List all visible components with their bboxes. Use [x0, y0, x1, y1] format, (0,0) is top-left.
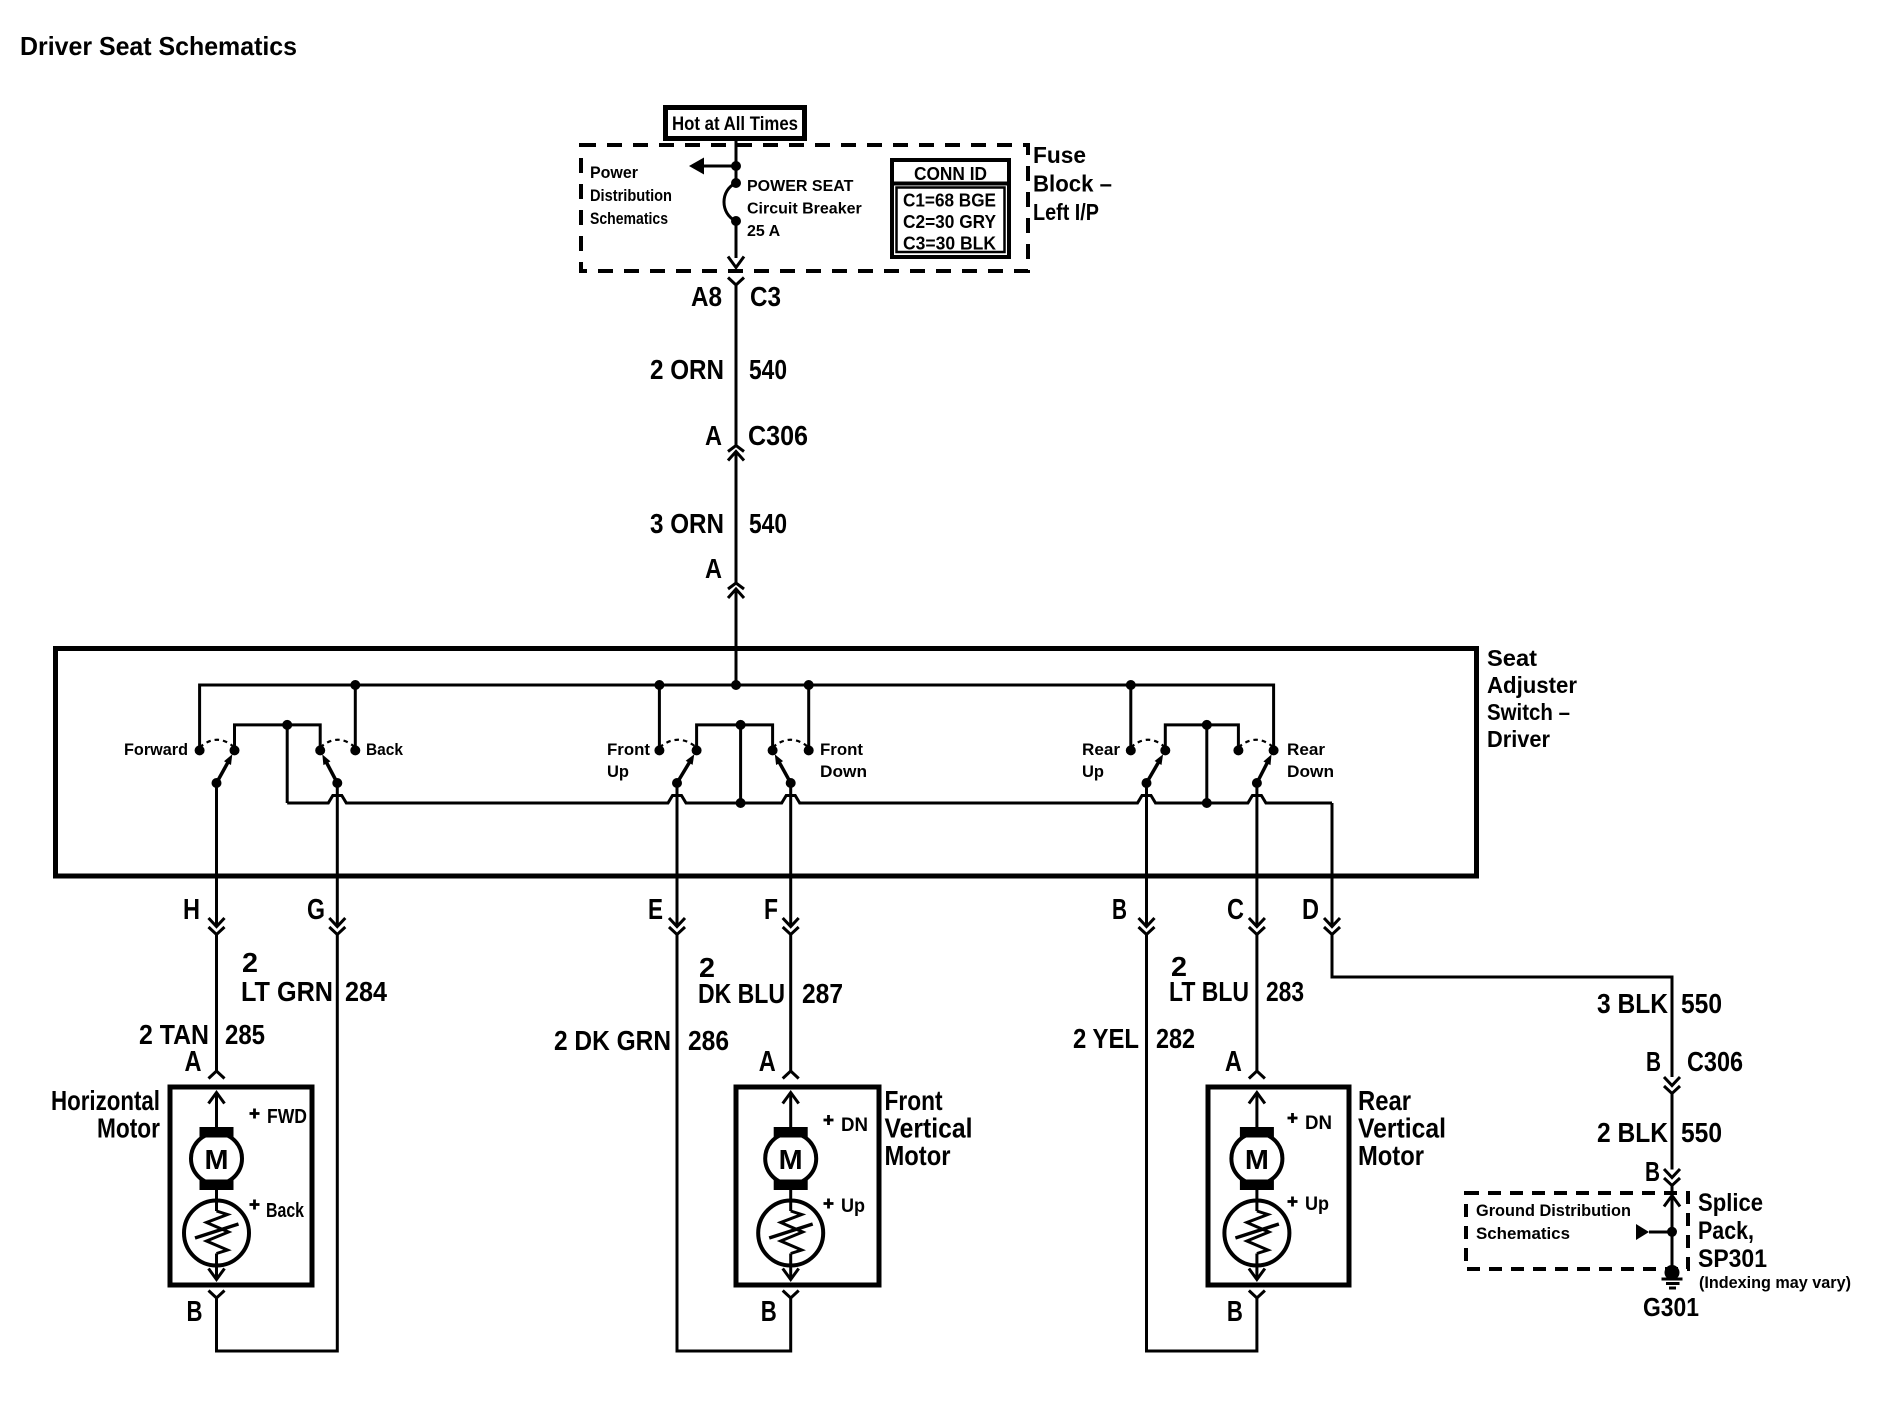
- junction ground bus rear: [1202, 798, 1212, 808]
- connector pin H: [209, 918, 225, 927]
- switch forward arm: [212, 778, 222, 788]
- switch forward contact: [195, 745, 205, 755]
- junction hot feed: [731, 161, 741, 171]
- wire rear vertical motor return loop: [1147, 935, 1257, 1352]
- svg-text:DK BLU: DK BLU: [698, 978, 785, 1009]
- connector C3 pin A8 (female Y): [728, 278, 744, 286]
- junction bridge rear: [1202, 720, 1212, 730]
- wire front vertical motor return loop: [677, 935, 791, 1352]
- junction bus front-up: [654, 680, 664, 690]
- connector horizontal motor pin A: [209, 1071, 225, 1079]
- svg-text:Front: Front: [607, 740, 650, 759]
- switch rear-up contact: [1126, 745, 1136, 755]
- svg-text:550: 550: [1681, 988, 1722, 1019]
- wire bus dropper front-up: [658, 685, 661, 750]
- svg-text:Forward: Forward: [124, 740, 188, 759]
- CONN ID table: [892, 160, 1009, 257]
- svg-text:Motor: Motor: [885, 1140, 951, 1171]
- svg-text:Driver Seat Schematics: Driver Seat Schematics: [20, 31, 297, 61]
- svg-text:550: 550: [1681, 1117, 1722, 1148]
- svg-text:Power: Power: [590, 163, 638, 182]
- switch back linkage (dashed arc): [320, 740, 355, 748]
- svg-text:Schematics: Schematics: [590, 209, 668, 228]
- svg-text:283: 283: [1266, 976, 1304, 1007]
- connector pin D: [1324, 918, 1340, 927]
- svg-text:DN: DN: [1305, 1113, 1332, 1134]
- svg-text:C: C: [1227, 894, 1244, 926]
- svg-text:25 A: 25 A: [747, 223, 781, 240]
- svg-text:Rear: Rear: [1082, 740, 1120, 759]
- front vertical motor box: [736, 1087, 879, 1285]
- wire horizontal motor return loop: [217, 935, 338, 1352]
- wire pin D to ground run: [1332, 935, 1672, 1078]
- svg-text:2 YEL: 2 YEL: [1073, 1023, 1139, 1054]
- bridge wire front-vertical: [697, 725, 773, 751]
- svg-text:Down: Down: [820, 762, 867, 781]
- svg-text:284: 284: [345, 976, 387, 1007]
- wire front vertical motor internal bottom: [789, 1254, 792, 1280]
- label + Back: [250, 1203, 260, 1206]
- switch forward throw contact: [230, 745, 240, 755]
- svg-text:CONN ID: CONN ID: [914, 164, 987, 184]
- svg-text:C306: C306: [748, 420, 808, 451]
- svg-text:Switch –: Switch –: [1487, 699, 1570, 725]
- bridge wire horizontal-motor: [235, 725, 321, 751]
- svg-text:A: A: [185, 1046, 202, 1078]
- svg-text:Fuse: Fuse: [1033, 142, 1086, 168]
- switch forward linkage (dashed arc): [200, 740, 235, 748]
- svg-text:G301: G301: [1643, 1292, 1699, 1322]
- svg-text:C3: C3: [750, 281, 781, 312]
- wire front vertical motor internal top: [783, 1093, 799, 1104]
- svg-text:(Indexing may vary): (Indexing may vary): [1699, 1273, 1851, 1292]
- wire 2 ORN 540: [735, 285, 738, 446]
- splice SP301: [1665, 1265, 1680, 1280]
- svg-text:A: A: [1225, 1046, 1242, 1078]
- arrow to ground distribution: [1636, 1224, 1649, 1240]
- switch rear-down linkage (dashed arc): [1238, 740, 1273, 748]
- svg-text:Motor: Motor: [1358, 1140, 1424, 1171]
- switch front-down arm: [786, 778, 796, 788]
- thermal limiter horizontal motor (resistor): [184, 1201, 249, 1266]
- svg-text:2 BLK: 2 BLK: [1597, 1117, 1668, 1148]
- svg-text:F: F: [764, 894, 778, 926]
- wire switch feed: [735, 589, 738, 685]
- svg-text:Back: Back: [266, 1200, 305, 1222]
- svg-text:Front: Front: [885, 1085, 943, 1116]
- svg-text:DN: DN: [841, 1115, 868, 1136]
- label box Hot at All Times: [666, 108, 805, 139]
- in-line connector pin A: [728, 583, 744, 589]
- svg-text:3 ORN: 3 ORN: [650, 508, 724, 539]
- svg-text:Distribution: Distribution: [590, 186, 672, 205]
- svg-text:3 BLK: 3 BLK: [1597, 988, 1668, 1019]
- fuse block dashed outline: [581, 145, 1028, 271]
- svg-text:M: M: [779, 1144, 803, 1175]
- wire bridge-to-ground-bus horizontal: [286, 725, 289, 803]
- wire horizontal motor internal mid: [215, 1190, 218, 1211]
- label + DN: [824, 1119, 834, 1122]
- wire pin D: [1331, 803, 1334, 927]
- svg-text:Vertical: Vertical: [1358, 1113, 1446, 1144]
- rear vertical motor box: [1208, 1087, 1349, 1285]
- svg-text:Rear: Rear: [1287, 740, 1325, 759]
- connector C306 pin B (ground): [1664, 1077, 1680, 1086]
- svg-text:B: B: [1227, 1296, 1243, 1328]
- thermal limiter rear vertical motor (resistor): [1224, 1201, 1289, 1266]
- seat adjuster switch box: [56, 649, 1477, 877]
- switch front-down contact: [804, 745, 814, 755]
- wire pin H: [215, 783, 218, 927]
- connector pin B: [1139, 918, 1155, 927]
- svg-text:Up: Up: [841, 1196, 865, 1217]
- svg-text:Splice: Splice: [1698, 1189, 1763, 1217]
- svg-text:E: E: [648, 894, 663, 926]
- wire into splice pack: [1671, 1186, 1674, 1194]
- connector splice pack pin B: [1664, 1169, 1680, 1178]
- motor horizontal motor symbol: [200, 1127, 234, 1138]
- svg-text:LT GRN: LT GRN: [241, 976, 333, 1007]
- svg-text:Circuit Breaker: Circuit Breaker: [747, 201, 862, 218]
- junction bus rear-up: [1126, 680, 1136, 690]
- wire rear vertical motor internal top: [1249, 1093, 1265, 1104]
- ground symbol G301: [1662, 1278, 1683, 1281]
- svg-text:Ground Distribution: Ground Distribution: [1476, 1201, 1631, 1220]
- wire pin F: [789, 783, 792, 927]
- wire rear vertical motor internal mid: [1255, 1190, 1258, 1211]
- svg-text:285: 285: [225, 1019, 265, 1050]
- wire bus dropper back: [354, 685, 357, 750]
- svg-text:SP301: SP301: [1698, 1245, 1767, 1273]
- switch rear-down arm: [1252, 778, 1262, 788]
- switch front-up linkage (dashed arc): [659, 740, 696, 748]
- wire pin G: [336, 783, 339, 927]
- connector pin C: [1249, 918, 1265, 927]
- svg-text:B: B: [1645, 1156, 1660, 1187]
- wire pin E: [676, 783, 679, 927]
- svg-text:287: 287: [802, 978, 843, 1009]
- label + DN: [1288, 1117, 1298, 1120]
- junction bus front-down: [804, 680, 814, 690]
- label + Up: [1288, 1200, 1298, 1203]
- svg-text:Adjuster: Adjuster: [1487, 672, 1577, 698]
- wire bridge-to-ground-bus front: [739, 725, 742, 803]
- svg-text:C2=30 GRY: C2=30 GRY: [903, 212, 996, 232]
- switch front-up contact: [654, 745, 664, 755]
- connector pin G: [329, 918, 345, 927]
- wire bus dropper front-down: [807, 685, 810, 750]
- junction bus back: [350, 680, 360, 690]
- connector rear vertical motor pin B: [1249, 1291, 1265, 1299]
- svg-text:540: 540: [749, 354, 787, 385]
- svg-text:C3=30 BLK: C3=30 BLK: [903, 234, 996, 254]
- svg-text:B: B: [1112, 894, 1127, 926]
- connector rear vertical motor pin A: [1249, 1071, 1265, 1079]
- svg-text:Down: Down: [1287, 762, 1334, 781]
- junction splice arrow: [1667, 1227, 1677, 1237]
- wire horizontal motor internal bottom: [215, 1254, 218, 1280]
- wire pin B: [1145, 783, 1148, 927]
- ground bus (with wire hops): [287, 796, 1332, 804]
- switch front-down linkage (dashed arc): [773, 740, 809, 748]
- wire rear vertical motor feed: [1255, 935, 1258, 1072]
- switch rear-up arm: [1142, 778, 1152, 788]
- switch back contact: [350, 745, 360, 755]
- svg-text:Up: Up: [1305, 1194, 1329, 1215]
- B+ bus: [200, 685, 1274, 750]
- svg-text:B: B: [187, 1296, 203, 1328]
- svg-text:Up: Up: [1082, 762, 1104, 781]
- svg-text:Rear: Rear: [1358, 1085, 1411, 1116]
- wire horizontal motor feed: [215, 935, 218, 1072]
- svg-text:Front: Front: [820, 740, 863, 759]
- svg-text:2: 2: [242, 947, 258, 978]
- wire bus dropper rear-up: [1129, 685, 1132, 750]
- switch back arm: [332, 778, 342, 788]
- svg-text:540: 540: [749, 508, 787, 539]
- svg-text:B: B: [761, 1296, 777, 1328]
- switch rear-up linkage (dashed arc): [1131, 740, 1166, 748]
- wire junction to breaker: [735, 166, 738, 183]
- svg-text:Back: Back: [366, 740, 403, 759]
- wire front vertical motor feed: [789, 935, 792, 1072]
- svg-text:A: A: [705, 420, 722, 451]
- horizontal motor box: [170, 1087, 312, 1285]
- svg-text:Vertical: Vertical: [885, 1113, 973, 1144]
- svg-text:M: M: [1245, 1144, 1269, 1175]
- wire breaker output: [735, 221, 738, 258]
- connector pin E: [669, 918, 685, 927]
- svg-text:D: D: [1302, 894, 1319, 926]
- svg-text:2 ORN: 2 ORN: [650, 354, 724, 385]
- junction ground bus front: [736, 798, 746, 808]
- wire pin C: [1255, 783, 1258, 927]
- circuit breaker 25 A: [731, 178, 741, 188]
- switch front-up arm: [672, 778, 682, 788]
- switch front-down throw contact: [768, 745, 778, 755]
- svg-text:Hot at All Times: Hot at All Times: [672, 114, 798, 135]
- connector pin F: [783, 918, 799, 927]
- svg-text:282: 282: [1156, 1023, 1195, 1054]
- svg-text:POWER SEAT: POWER SEAT: [747, 178, 854, 195]
- motor rear vertical motor symbol: [1240, 1127, 1274, 1138]
- wire bridge-to-ground-bus rear: [1205, 725, 1208, 803]
- connector front vertical motor pin A: [783, 1071, 799, 1079]
- thermal limiter front vertical motor (resistor): [758, 1201, 823, 1266]
- ground distribution dashed box: [1466, 1193, 1688, 1269]
- in-line connector C306 pin A: [728, 446, 744, 452]
- junction bridge front: [736, 720, 746, 730]
- junction bridge horizontal: [282, 720, 292, 730]
- bridge wire rear-vertical: [1165, 725, 1238, 751]
- connector front vertical motor pin B: [783, 1291, 799, 1299]
- motor front vertical motor symbol: [774, 1127, 808, 1138]
- svg-text:B: B: [1646, 1046, 1661, 1077]
- wire rear vertical motor internal bottom: [1255, 1254, 1258, 1280]
- switch front-up throw contact: [692, 745, 702, 755]
- svg-text:Block –: Block –: [1033, 171, 1112, 197]
- svg-text:C1=68 BGE: C1=68 BGE: [903, 191, 996, 211]
- svg-text:C306: C306: [1687, 1046, 1743, 1077]
- svg-text:Left I/P: Left I/P: [1033, 199, 1099, 225]
- svg-text:Up: Up: [607, 762, 629, 781]
- svg-text:Seat: Seat: [1487, 645, 1537, 671]
- svg-text:Driver: Driver: [1487, 726, 1550, 752]
- label + Up: [824, 1202, 834, 1205]
- svg-text:A: A: [705, 553, 722, 584]
- junction bus main: [731, 680, 741, 690]
- svg-text:Motor: Motor: [97, 1113, 160, 1144]
- arrow to power distribution: [704, 165, 736, 168]
- wire splice internal: [1664, 1196, 1680, 1207]
- label + FWD: [250, 1112, 260, 1115]
- wire 3 ORN 540: [735, 452, 738, 584]
- svg-text:2 DK GRN: 2 DK GRN: [554, 1025, 671, 1056]
- switch rear-up throw contact: [1160, 745, 1170, 755]
- connector horizontal motor pin B: [209, 1291, 225, 1299]
- svg-text:A: A: [759, 1046, 776, 1078]
- svg-text:G: G: [307, 894, 325, 926]
- wire hot feed: [735, 138, 738, 166]
- wire horizontal motor internal top: [209, 1093, 225, 1104]
- wire 2 BLK 550: [1671, 1094, 1674, 1170]
- svg-text:FWD: FWD: [267, 1106, 307, 1128]
- switch rear-down contact: [1233, 745, 1243, 755]
- svg-text:M: M: [205, 1144, 229, 1175]
- switch back throw contact: [315, 745, 325, 755]
- svg-text:Schematics: Schematics: [1476, 1224, 1570, 1243]
- svg-text:Pack,: Pack,: [1698, 1217, 1754, 1245]
- svg-text:A8: A8: [691, 281, 722, 312]
- switch rear-down throw contact: [1269, 745, 1279, 755]
- fuse block exit arrow: [728, 257, 744, 268]
- svg-text:H: H: [183, 894, 200, 926]
- svg-text:Horizontal: Horizontal: [51, 1085, 160, 1116]
- wire front vertical motor internal mid: [789, 1190, 792, 1211]
- svg-text:286: 286: [688, 1025, 729, 1056]
- svg-text:LT BLU: LT BLU: [1169, 976, 1249, 1007]
